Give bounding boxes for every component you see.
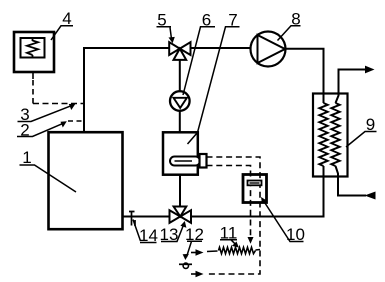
- svg-text:6: 6: [202, 10, 211, 29]
- svg-text:11: 11: [220, 223, 238, 242]
- svg-text:9: 9: [366, 115, 375, 134]
- svg-text:1: 1: [22, 148, 31, 167]
- svg-text:14: 14: [139, 226, 158, 245]
- svg-text:10: 10: [286, 225, 305, 244]
- svg-text:3: 3: [20, 105, 29, 124]
- svg-text:12: 12: [185, 225, 204, 244]
- svg-text:5: 5: [157, 10, 166, 29]
- svg-text:4: 4: [62, 9, 71, 28]
- svg-text:13: 13: [160, 225, 179, 244]
- svg-text:7: 7: [228, 10, 237, 29]
- svg-text:8: 8: [291, 9, 300, 28]
